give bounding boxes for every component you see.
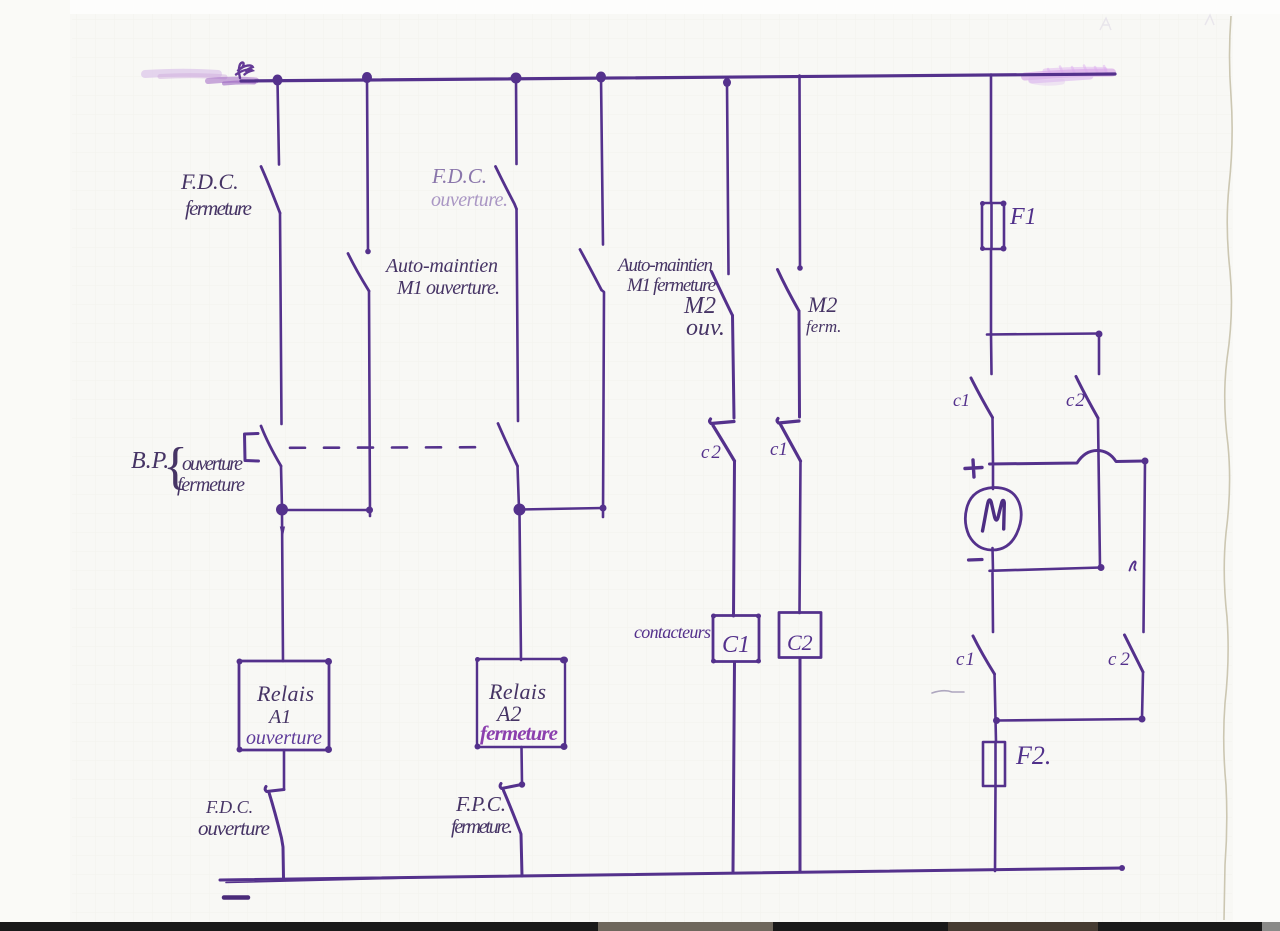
top bus highlighter right streak (1025, 73, 1112, 77)
junction dot F2 row (993, 717, 1000, 724)
switch FDC fermeture arm (261, 167, 280, 214)
svg-text:ouverture: ouverture (182, 453, 243, 475)
switch BP pole 1 arm (261, 426, 281, 466)
switch auto-maintien M1 fermeture arm (580, 250, 602, 291)
contactor coil C1 box (713, 616, 759, 662)
svg-text:C1: C1 (722, 632, 750, 658)
contact c2 motor arm (1076, 377, 1098, 419)
bottom scanner strip (0, 922, 1280, 931)
fuse F2 body (983, 742, 1005, 786)
wire T node horizontal (987, 334, 1099, 335)
wire branch E middle (733, 316, 735, 419)
wire left stub below T (990, 334, 993, 374)
svg-text:Auto-maintien: Auto-maintien (616, 255, 713, 276)
wire branch B (367, 78, 370, 517)
svg-text:Relais: Relais (256, 681, 314, 706)
contact c1 motor arm (971, 378, 993, 418)
svg-text:c2: c2 (1066, 390, 1086, 411)
wire motor to c1 bottom stub (991, 573, 994, 632)
wire node C horizontal to branch D (519, 508, 603, 510)
switch FDC fermeture (bottom) (500, 784, 522, 877)
svg-text:M1 ouverture.: M1 ouverture. (396, 277, 500, 299)
wire c2 bottom to junction (1142, 672, 1143, 719)
svg-text:fermeture: fermeture (480, 721, 558, 745)
junction dot node A (276, 504, 288, 516)
svg-text:ferm.: ferm. (806, 317, 841, 336)
junction dot bus 1 (273, 75, 283, 86)
svg-text:F.D.C.: F.D.C. (205, 797, 253, 817)
switch auto-maintien M1 ouverture arm (348, 254, 369, 292)
motor letter M (983, 500, 1005, 531)
wire branch C top stub (515, 78, 518, 164)
wire right vertical from plus-row (1144, 461, 1146, 632)
contact c1 (bottom) arm (973, 636, 995, 674)
wire branch F top stub (798, 76, 801, 269)
relay A1 box corner dots (237, 659, 243, 665)
junction dot plus row right (1142, 458, 1149, 465)
wire coil C2 to bottom bus (799, 658, 802, 871)
junction dot branch F stub end (797, 265, 803, 271)
svg-text:ouverture.: ouverture. (431, 189, 508, 211)
wire branch A middle (280, 213, 282, 424)
wire branch E to coil C1 (734, 461, 735, 616)
fuse F1 corner dots (980, 201, 985, 206)
wire branch A to node A (281, 466, 282, 509)
wire power column top (990, 75, 993, 204)
junction dot bus 2 (362, 72, 372, 83)
top bus wire (241, 74, 1115, 81)
wire c2 vertical through hop (1098, 418, 1100, 567)
svg-text:M2: M2 (807, 292, 837, 317)
wire plus node to motor (992, 464, 995, 489)
bottom bus double stroke left (226, 878, 428, 883)
svg-text:c2: c2 (1108, 649, 1134, 670)
relay A1 coil box (239, 661, 329, 750)
short dark dash below bottom bus (224, 895, 248, 900)
junction dot bottom bus right end (1119, 865, 1125, 871)
wire relay A1 to FDC ouverture (283, 750, 286, 789)
plus sign at motor (965, 460, 982, 477)
relay A2 box corner dots (475, 657, 480, 662)
svg-text:c1: c1 (953, 390, 970, 410)
relay A2 coil box (477, 659, 565, 747)
light pen squiggle left of c1 bottom (932, 691, 964, 693)
bottom bus wire (220, 868, 1122, 880)
small mark e near right vertical (1130, 562, 1136, 571)
wire c1 bottom to F2 (995, 674, 997, 742)
junction dot node C (514, 504, 526, 516)
switch M2 ferm arm (778, 270, 800, 312)
svg-text:Auto-maintien: Auto-maintien (384, 255, 498, 277)
wire bottom horizontal to F2 column (997, 719, 1143, 721)
svg-text:C2: C2 (787, 630, 813, 655)
wire coil C1 to bottom bus (733, 662, 735, 872)
coil C1 box corner dots (711, 614, 716, 619)
minus sign at motor (969, 558, 983, 562)
junction dot motor bottom right (1098, 564, 1105, 571)
svg-text:F.D.C.: F.D.C. (431, 164, 487, 188)
wire branch F middle (798, 311, 802, 417)
svg-text:F1: F1 (1009, 204, 1037, 230)
svg-text:contacteurs: contacteurs (634, 622, 711, 642)
wire relay A2 to FDC fermeture (520, 747, 523, 784)
junction dot bus 5 (723, 78, 731, 87)
BP linkage dashed line (290, 446, 487, 449)
svg-text:c1: c1 (956, 649, 976, 670)
svg-text:ouverture: ouverture (246, 727, 322, 749)
junction dot bus 4 (596, 72, 606, 83)
pushbutton BP bracket (245, 434, 259, 462)
torn right paper edge (1224, 16, 1232, 920)
wire branch A top stub (278, 81, 280, 165)
wire right stub below T (1098, 334, 1101, 374)
svg-text:fermeture.: fermeture. (451, 816, 513, 838)
junction dot node A right end (366, 507, 373, 514)
svg-text:fermeture: fermeture (177, 474, 245, 496)
contact c2 (bottom right) arm (1125, 635, 1144, 672)
wire branch C to node C (518, 466, 520, 509)
wire node A horizontal to branch B (282, 509, 370, 512)
wire branch C middle (517, 209, 519, 421)
fuse F1 body (982, 203, 1004, 249)
wire branch A below node A (282, 513, 283, 661)
junction dot branch B stub end (365, 249, 371, 255)
faint pencil marks top right (1100, 15, 1214, 30)
switch FDC ouverture (bottom left) (265, 787, 284, 879)
fuse F2 wire through (994, 742, 997, 786)
wire plus node horizontal with hop (990, 451, 1146, 465)
top bus highlighter left streak (145, 73, 218, 74)
svg-text:F.P.C.: F.P.C. (455, 792, 506, 816)
svg-text:c2: c2 (701, 442, 723, 463)
switch FDC ouverture (top) arm (496, 167, 517, 210)
svg-text:ouv.: ouv. (686, 315, 725, 341)
svg-text:F.D.C.: F.D.C. (180, 169, 239, 194)
junction dot F2 row right (1139, 716, 1146, 723)
wire branch C below node C (520, 513, 522, 660)
wire branch F to coil C2 (800, 461, 801, 613)
arrowhead on wire A (280, 527, 285, 539)
junction dot bus 3 (511, 73, 522, 84)
switch BP pole 2 arm (498, 424, 518, 467)
switch M2 ouv arm (712, 272, 733, 316)
svg-text:ouverture: ouverture (198, 816, 270, 840)
junction dot node C right end (600, 505, 607, 512)
motor M circle (965, 487, 1021, 550)
wire branch E top stub (727, 83, 729, 274)
svg-text:c1: c1 (770, 439, 788, 460)
ink flourish at bus start (236, 62, 253, 78)
wire motor bottom horizontal (990, 568, 1102, 571)
junction dot T node right (1096, 331, 1103, 338)
svg-text:F2.: F2. (1015, 741, 1051, 770)
wire F2 to bottom bus (994, 786, 997, 871)
wire branch D (601, 77, 604, 517)
svg-text:A1: A1 (267, 706, 291, 728)
contactor coil C2 box (779, 613, 821, 658)
contact c2 (NC) on branch E (710, 419, 735, 461)
junction dot FDC fermeture bottom (519, 781, 525, 787)
svg-text:fermeture: fermeture (185, 196, 252, 220)
contact c1 (NC) on branch F (777, 419, 800, 462)
wire F1 to T node (990, 249, 993, 334)
wire motor bottom (991, 548, 994, 571)
wire c1 to plus node (991, 418, 994, 465)
fuse F1 wire through (990, 203, 993, 249)
